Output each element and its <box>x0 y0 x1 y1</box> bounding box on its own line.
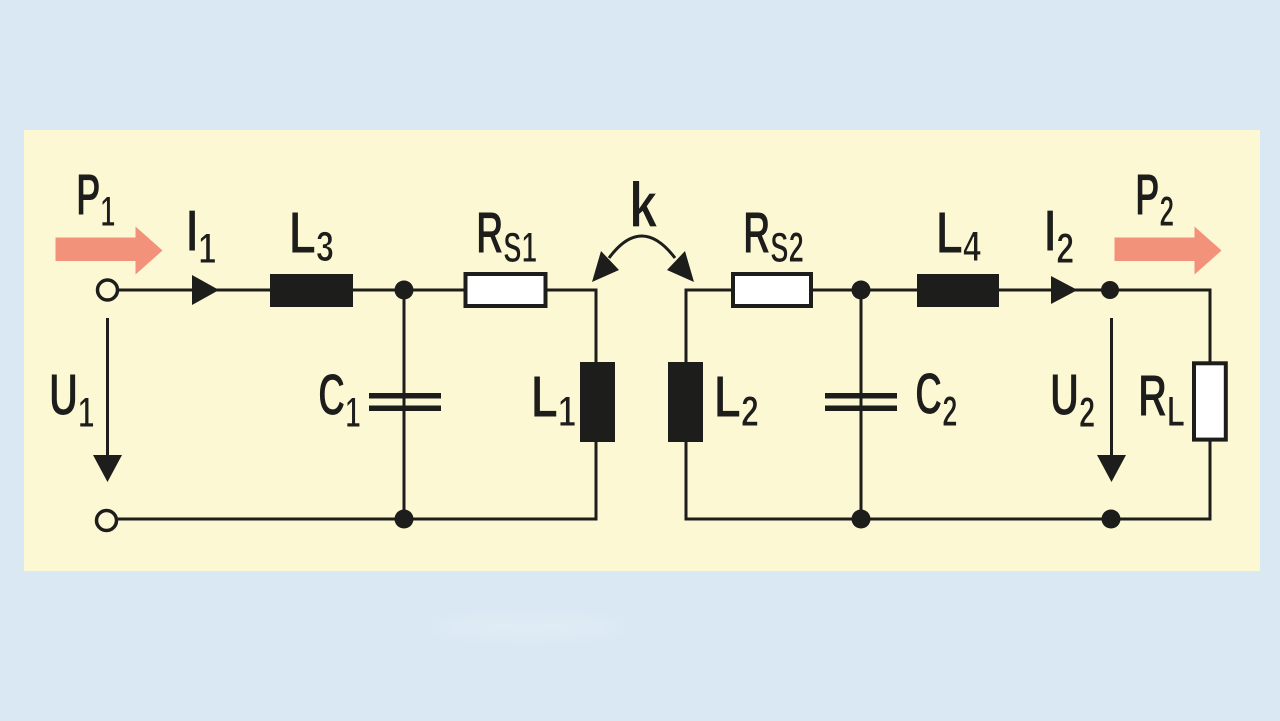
wire bottom-right rail <box>685 440 1211 519</box>
resistor RS2 <box>733 274 811 306</box>
terminal input bottom <box>97 511 117 531</box>
coupling arc k <box>609 236 675 258</box>
inductor L2 <box>668 362 703 442</box>
terminal input top <box>98 280 118 300</box>
node C (top C2) <box>852 281 871 300</box>
wire C2 branch <box>860 290 863 519</box>
wire L2 top branch <box>685 289 688 363</box>
inductor L1 <box>580 362 615 442</box>
coupling arrowhead right <box>667 251 694 282</box>
node E (output top) <box>1101 281 1119 299</box>
wire bottom-left rail <box>118 518 598 521</box>
capacitor C1 <box>369 393 441 411</box>
wire top-right rail <box>686 289 1210 363</box>
inductor L3 <box>270 274 353 307</box>
inductor L4 <box>917 274 999 307</box>
node A (top C1) <box>395 281 414 300</box>
node D (bottom C2) <box>852 510 871 529</box>
wire left primary branch down to L1 <box>595 289 598 363</box>
voltage arrow U1 <box>93 318 122 482</box>
current arrow I2 <box>1051 276 1078 304</box>
capacitor C2 <box>825 393 897 411</box>
schematic panel <box>24 130 1260 571</box>
coupling arrowhead left <box>592 251 619 282</box>
svg-text:k: k <box>629 171 658 242</box>
current arrow I1 <box>192 275 219 305</box>
resistor RS1 <box>466 274 546 306</box>
node F (output bottom) <box>1102 510 1121 529</box>
node B (bottom C1) <box>395 510 414 529</box>
voltage arrow U2 <box>1097 318 1126 482</box>
resistor RL <box>1194 363 1226 439</box>
wire L2 bottom to rail <box>685 442 688 521</box>
power arrow P2 <box>1115 227 1222 275</box>
wire L1 bottom to rail <box>595 442 598 521</box>
wire top-left rail <box>119 289 596 292</box>
power arrow P1 <box>56 227 163 275</box>
wire C1 branch <box>403 290 406 519</box>
faint smudge in lower blue margin <box>433 617 623 637</box>
